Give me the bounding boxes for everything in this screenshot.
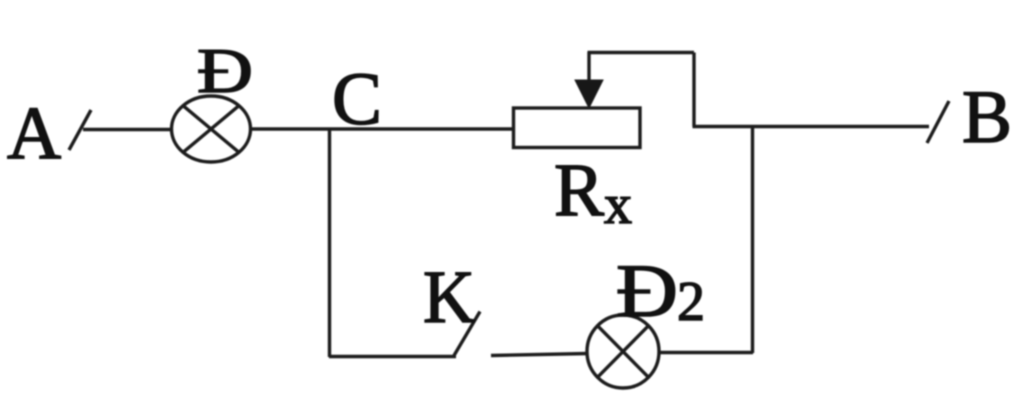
label B [962, 76, 1012, 159]
rheostat wiper arrow [575, 52, 603, 108]
lamp D2 (circle with X) [587, 315, 659, 388]
bottom wire from node C [329, 355, 456, 358]
label D2 (lamp 2) [616, 250, 705, 333]
svg-text:A: A [7, 92, 61, 175]
svg-text:C: C [332, 58, 382, 141]
svg-text:2: 2 [677, 271, 705, 333]
label A [7, 92, 61, 175]
lamp D (circle with X) [172, 96, 251, 162]
node C [328, 129, 331, 357]
label K [423, 256, 475, 339]
svg-text:Đ: Đ [616, 250, 678, 333]
wire wiper over to right [588, 53, 695, 127]
wire to terminal B [693, 125, 930, 128]
junction wire down to lamp D2 branch [751, 127, 754, 354]
wire lamp D to rheostat [251, 127, 513, 130]
label Rx [554, 149, 632, 236]
wire lamp D2 to right junction [658, 351, 753, 354]
svg-text:R: R [554, 149, 604, 232]
terminal A slash [69, 110, 91, 150]
switch K blade [454, 312, 480, 356]
wire A to lamp D [83, 128, 172, 131]
svg-text:x: x [604, 174, 632, 236]
rheostat Rx body [514, 108, 641, 148]
wire switch to lamp D2 [491, 354, 588, 356]
terminal B slash [927, 101, 949, 143]
label D (lamp 1) [197, 36, 253, 106]
label C [332, 58, 382, 141]
svg-text:Đ: Đ [197, 36, 253, 106]
svg-text:K: K [423, 256, 475, 339]
svg-text:B: B [962, 76, 1012, 159]
